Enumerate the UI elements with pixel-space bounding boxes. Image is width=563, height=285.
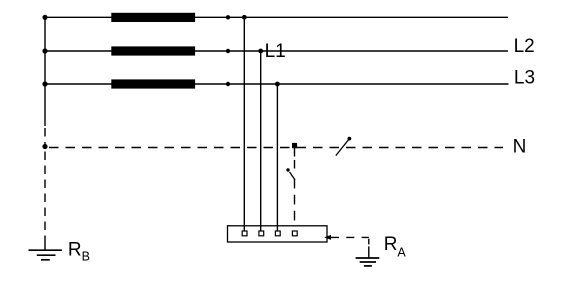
- wire L1 phase line: [45, 16, 508, 18]
- winding W3: [111, 79, 195, 88]
- wire drop from L3 to terminal 3: [276, 84, 278, 231]
- wire L2 phase line: [45, 50, 508, 52]
- node a on L1: [226, 15, 230, 19]
- node tap L2: [258, 49, 263, 54]
- svg-text:RA: RA: [384, 234, 407, 260]
- svg-text:L2: L2: [514, 36, 535, 57]
- wire N drop upper dashed: [294, 160, 296, 169]
- node N junction: [42, 144, 47, 149]
- svg-text:RB: RB: [68, 240, 90, 264]
- node b on L2: [226, 49, 230, 53]
- terminal 3: [275, 231, 280, 236]
- wire star-point to N (dashed): [44, 128, 46, 147]
- svg-text:L1: L1: [265, 41, 286, 62]
- switch S2 contact dot: [348, 137, 352, 141]
- node star point L2: [42, 48, 47, 53]
- svg-text:L3: L3: [514, 68, 535, 89]
- node c on L3: [226, 82, 230, 86]
- winding W1: [111, 13, 195, 22]
- busbar consumer unit: [228, 226, 328, 242]
- wire earthing conductor to RB (dashed): [44, 152, 46, 239]
- winding W2: [111, 46, 195, 55]
- node tap L1: [242, 15, 247, 20]
- ground RB: [29, 250, 62, 260]
- wire star-point bus (solid): [44, 17, 46, 126]
- svg-text:N: N: [513, 137, 527, 158]
- wire RA ground stem: [368, 246, 370, 258]
- switch S2 blade on N: [336, 140, 349, 156]
- wire RB ground stem: [44, 239, 46, 251]
- node tap L3: [275, 82, 280, 87]
- ground RA: [356, 258, 380, 266]
- wire N drop stub: [294, 148, 296, 157]
- wire RA link (dashed): [331, 236, 369, 238]
- terminal 2: [259, 231, 264, 236]
- wire L3 phase line: [45, 83, 509, 85]
- wire RA link down (dashed): [368, 239, 370, 245]
- switch S1 blade: [290, 172, 295, 180]
- node star point L1: [42, 15, 47, 20]
- terminal 1: [242, 231, 247, 236]
- wire drop from L2 to terminal 2: [260, 51, 262, 231]
- switch S1 contact dot: [286, 168, 289, 171]
- wire N drop lower dashed: [294, 179, 296, 226]
- wire drop from L1 to terminal 1: [243, 17, 245, 231]
- node star point L3: [42, 81, 47, 86]
- node N tap square: [292, 143, 297, 148]
- wire N conductor (dashed): [49, 147, 503, 149]
- arrow to RA earth: [324, 235, 331, 240]
- terminal 4: [292, 231, 297, 236]
